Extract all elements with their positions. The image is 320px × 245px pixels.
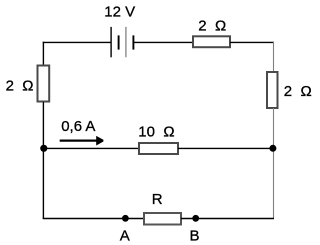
node junction dot left: [40, 145, 47, 152]
svg-text:12 V: 12 V: [104, 4, 135, 21]
svg-text:10 Ω: 10 Ω: [138, 123, 174, 140]
wire top-right segment: [230, 41, 274, 43]
wire right vertical upper: [273, 42, 275, 72]
battery V1 plate long right: [125, 27, 127, 57]
resistor R4 (middle, 10 ohm): [139, 143, 178, 154]
node B dot: [192, 215, 199, 222]
wire middle-right segment: [178, 147, 274, 149]
svg-text:2 Ω: 2 Ω: [284, 83, 312, 100]
battery V1 plate short left: [118, 35, 120, 49]
battery V1 plate long left: [110, 27, 112, 57]
resistor R (bottom): [144, 213, 181, 225]
wire left vertical lower: [42, 102, 44, 219]
wire bottom-right segment: [181, 218, 274, 220]
svg-text:2 Ω: 2 Ω: [6, 77, 34, 94]
battery V1 plate short right: [132, 35, 134, 49]
wire middle-left segment: [43, 147, 139, 149]
current arrow 0,6 A: [60, 140, 97, 142]
resistor R3 (right, 2 ohm): [267, 72, 278, 108]
wire left vertical upper: [42, 42, 44, 65]
svg-text:0,6 A: 0,6 A: [61, 118, 95, 135]
svg-text:A: A: [120, 227, 130, 244]
node junction dot right: [269, 145, 276, 152]
svg-text:B: B: [190, 227, 200, 244]
svg-text:2 Ω: 2 Ω: [198, 18, 226, 35]
wire top-middle segment: [133, 41, 193, 43]
wire top-left segment: [43, 41, 111, 43]
svg-text:R: R: [152, 191, 163, 208]
node A dot: [122, 215, 129, 222]
resistor R2 (top, 2 ohm): [193, 36, 230, 47]
resistor R1 (left, 2 ohm): [38, 66, 50, 102]
wire right vertical lower: [273, 108, 275, 219]
wire bottom-left segment: [43, 218, 144, 220]
